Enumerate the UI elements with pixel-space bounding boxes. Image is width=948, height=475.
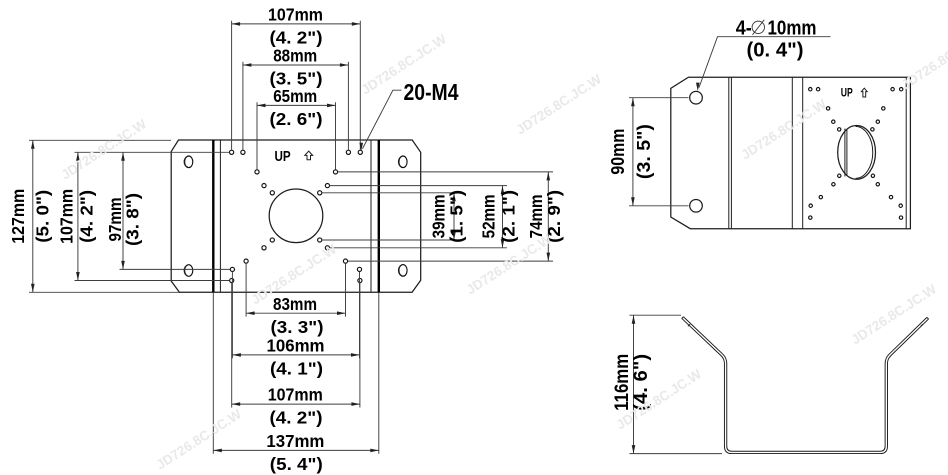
slot hole 3 (398, 156, 407, 168)
svg-text:83mm: 83mm (273, 294, 317, 314)
side view section line 3 (802, 77, 804, 229)
svg-text:(2. 1"): (2. 1") (499, 190, 519, 243)
slot hole 2 (184, 265, 193, 277)
dimension 127mm left (32, 140, 34, 292)
dimension 107mm left (77, 152, 79, 280)
dimension 90mm side view (629, 97, 689, 99)
svg-text:127mm: 127mm (8, 189, 28, 244)
extension lines for bottom dimensions (245, 263, 247, 316)
svg-text:107mm: 107mm (268, 385, 323, 405)
svg-text:20-M4: 20-M4 (404, 79, 459, 105)
slot hole 4 (398, 265, 407, 277)
svg-text:(5. 4"): (5. 4") (270, 454, 323, 474)
center cable hole (269, 189, 323, 243)
M4 screw holes on plate (20-M4 pattern) (230, 150, 363, 282)
dimension 39mm right (453, 193, 455, 240)
strip end tick right (921, 324, 923, 326)
up arrow symbol main view (305, 151, 313, 160)
dimension 74mm right (547, 172, 549, 261)
strip end tick left (688, 324, 690, 326)
extension lines for left dimensions (29, 139, 171, 141)
svg-text:137mm: 137mm (266, 431, 324, 451)
mounting hole top (10mm) (690, 91, 703, 104)
svg-text:JD726.8C.JC.W: JD726.8C.JC.W (738, 96, 829, 162)
dimension 97mm left (122, 152, 124, 269)
dimension 52mm right (502, 186, 504, 248)
svg-text:106mm: 106mm (267, 335, 325, 355)
main front view: bracket outline (171, 140, 421, 292)
svg-text:JD726.8C.JC.W: JD726.8C.JC.W (848, 281, 939, 347)
svg-text:65mm: 65mm (273, 86, 317, 106)
diameter symbol (752, 21, 764, 33)
svg-text:UP: UP (841, 88, 853, 100)
svg-text:10mm: 10mm (768, 18, 817, 40)
svg-text:90mm: 90mm (607, 129, 628, 175)
svg-text:(1. 5"): (1. 5") (447, 190, 467, 243)
svg-text:JD726.8C.JC.W: JD726.8C.JC.W (513, 71, 604, 137)
svg-text:(4. 1"): (4. 1") (270, 358, 323, 378)
dimension 116mm profile (630, 314, 682, 316)
dimension 88mm top (243, 64, 349, 66)
side view section line 2 (791, 77, 793, 229)
svg-text:74mm: 74mm (526, 194, 546, 238)
bend line left (thick) (212, 140, 214, 292)
M4 screw holes side view (809, 88, 903, 220)
dimension 137mm bottom (213, 449, 378, 451)
profile view: bent strip (683, 318, 928, 453)
svg-text:(3. 5"): (3. 5") (633, 124, 654, 179)
side view section line 1a (728, 77, 730, 229)
dimension 65mm top (257, 104, 336, 106)
svg-text:107mm: 107mm (268, 4, 323, 24)
up arrow symbol side view (861, 88, 867, 97)
svg-text:(3. 3"): (3. 3") (271, 317, 324, 337)
svg-text:(4. 2"): (4. 2") (77, 190, 97, 243)
svg-text:JD726.8C.JC.W: JD726.8C.JC.W (153, 406, 244, 472)
svg-text:(4. 2"): (4. 2") (270, 408, 323, 428)
dimension 107mm top (232, 23, 361, 25)
strip end cap right (927, 317, 929, 319)
svg-text:(0. 4"): (0. 4") (747, 40, 804, 62)
svg-text:4-: 4- (736, 18, 752, 40)
svg-text:52mm: 52mm (478, 194, 498, 238)
svg-text:(5. 0"): (5. 0") (33, 190, 53, 243)
bend line left inner (thin) (219, 140, 221, 292)
dimension 106mm bottom (232, 354, 359, 356)
leader 4-d10mm (699, 37, 831, 88)
extension lines for right dimensions (322, 192, 459, 194)
bend line right inner (thin) (370, 140, 372, 292)
svg-text:88mm: 88mm (273, 45, 317, 65)
side view: bracket outline (671, 77, 911, 229)
bend line right (thick) (378, 140, 380, 292)
svg-text:(3. 8"): (3. 8") (123, 193, 143, 246)
side view section line 1b (730, 77, 732, 229)
center slot side view (838, 125, 876, 179)
svg-text:(2. 6"): (2. 6") (270, 109, 323, 129)
extension lines for top dimensions (231, 21, 233, 150)
strip end cap left (682, 317, 684, 319)
svg-text:JD726.8C.JC.W: JD726.8C.JC.W (898, 26, 948, 92)
side view inner right edge (905, 77, 907, 229)
dimension 83mm bottom (246, 312, 345, 314)
svg-text:UP: UP (275, 148, 291, 165)
svg-text:JD726.8C.JC.W: JD726.8C.JC.W (58, 116, 149, 182)
leader 20-M4 (363, 90, 402, 149)
dimension 107mm bottom (232, 403, 360, 405)
svg-text:107mm: 107mm (57, 189, 77, 244)
slot hole 1 (184, 156, 193, 168)
mounting hole bottom (10mm) (690, 200, 703, 213)
